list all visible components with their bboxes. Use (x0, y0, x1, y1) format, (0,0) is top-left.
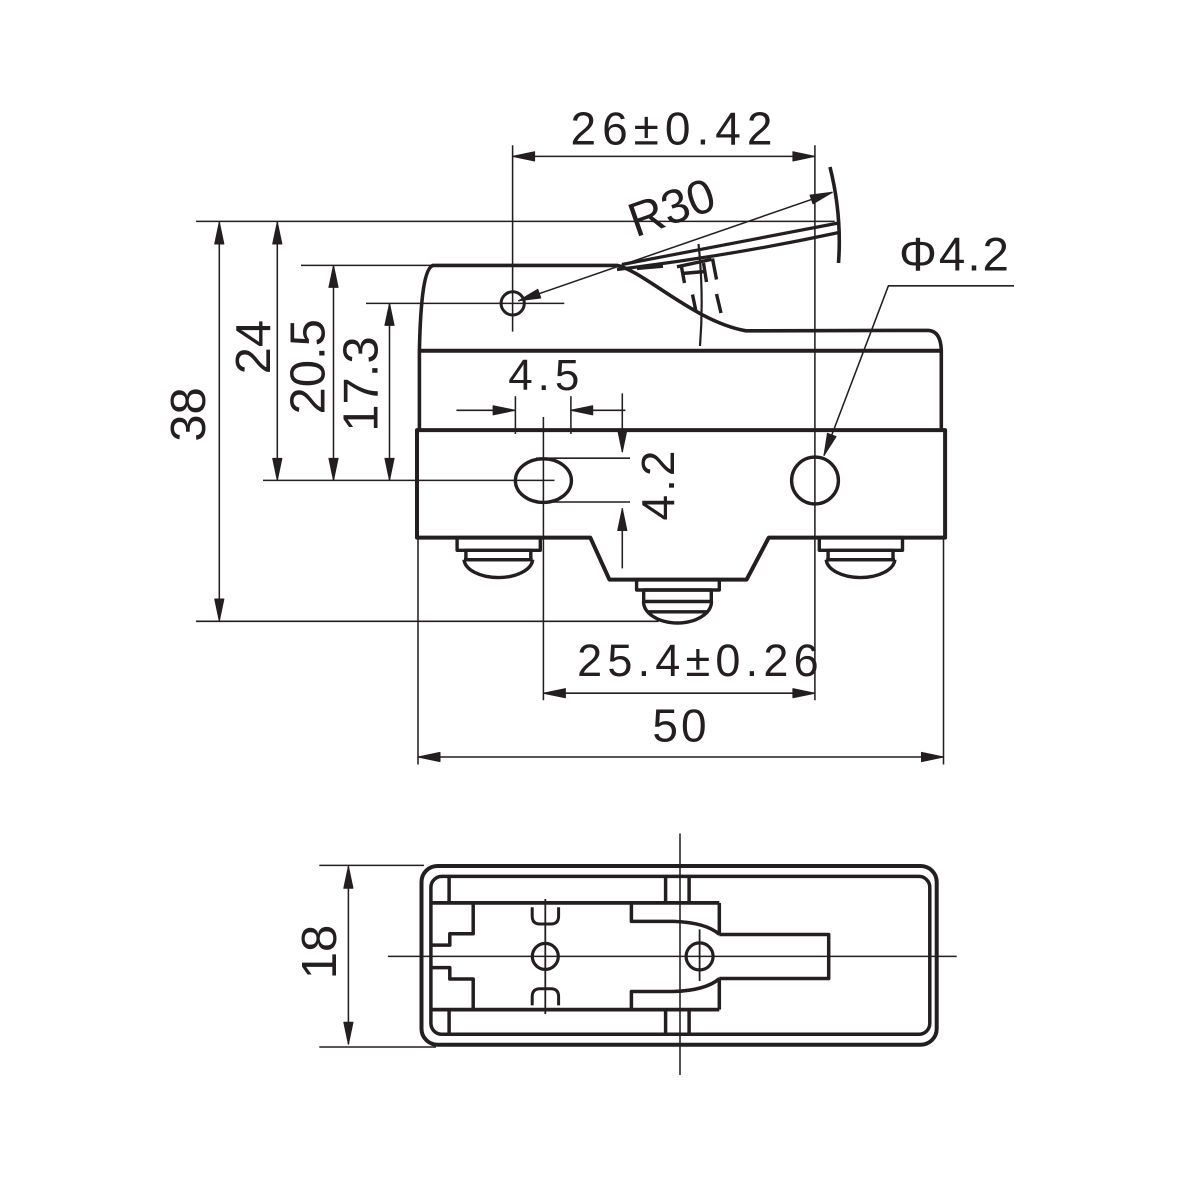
bottom view horizontal centerline (388, 955, 957, 957)
bottom view inner case (431, 876, 930, 1034)
dimension 26±0.42 (513, 145, 815, 700)
svg-text:50: 50 (652, 700, 709, 752)
dimension 4.2 (slot height) (536, 393, 630, 568)
lever blade top edge (622, 223, 839, 265)
reference line at body top (20.5) (301, 264, 433, 266)
dimension 18 (319, 865, 436, 1047)
middle screw (bottom view) (532, 899, 558, 1014)
left staircase upper (431, 903, 473, 945)
svg-text:25.4±0.26: 25.4±0.26 (577, 635, 824, 686)
dimension 25.4±0.26 (543, 692, 815, 694)
switch body upper outline (front view) (419, 265, 941, 430)
left tab bottom (447, 1010, 451, 1035)
right clamp upper (631, 903, 719, 935)
svg-text:24: 24 (227, 320, 281, 375)
reference line through hole centers (263, 479, 555, 481)
dimension 38 (218, 222, 220, 621)
bottom view vertical centerline (679, 834, 681, 1076)
bottom reference line (38) (196, 620, 659, 622)
lever tip travel arc (830, 167, 839, 263)
top reference line (lever tip height) (196, 220, 835, 222)
dimension 4.5 (456, 396, 625, 434)
left mounting hole (slot 4.5 x 4.2) (515, 459, 571, 503)
center tabs top (666, 876, 690, 903)
dimension 24 (276, 222, 278, 480)
svg-text:38: 38 (162, 387, 216, 442)
inner mechanism bottom line (431, 1008, 719, 1012)
R30 leader line (519, 192, 833, 300)
dashed lever mechanism detail (637, 259, 721, 314)
svg-text:4.2: 4.2 (632, 448, 684, 521)
right screw terminal (819, 538, 902, 578)
svg-text:4.5: 4.5 (508, 351, 584, 400)
body mid separation line (419, 349, 941, 353)
lever pivot hole (501, 292, 524, 315)
svg-text:17.3: 17.3 (335, 336, 389, 431)
left screw terminal (457, 538, 540, 578)
dimension 20.5 (333, 265, 335, 480)
center tabs bottom (666, 1010, 690, 1035)
reference line through pivot (17.3) (366, 302, 564, 304)
middle screw terminal (637, 580, 720, 623)
svg-text:26±0.42: 26±0.42 (571, 103, 779, 155)
plunger channel (719, 935, 828, 979)
switch body lower block with bottom notch (417, 430, 945, 579)
upper clip (532, 907, 558, 924)
left hole vertical centerline (542, 417, 544, 700)
svg-text:18: 18 (293, 925, 347, 980)
right clamp lower (631, 979, 719, 1010)
left staircase lower (431, 968, 473, 1010)
inner mechanism top line (431, 901, 719, 905)
thin swing arc through lever root (699, 244, 702, 346)
dimension 50 (418, 538, 944, 765)
bottom view outer case (422, 866, 937, 1045)
lever blade bottom edge (617, 233, 839, 270)
leader for dia 4.2 hole (824, 286, 1014, 456)
right screw (bottom view) (686, 929, 713, 981)
right mounting hole (dia 4.2) (792, 457, 839, 504)
left tab top (447, 876, 451, 903)
svg-text:Φ4.2: Φ4.2 (899, 229, 1011, 282)
dimension 17.3 (389, 303, 391, 480)
svg-text:20.5: 20.5 (282, 319, 336, 414)
lower clip (532, 989, 558, 1006)
